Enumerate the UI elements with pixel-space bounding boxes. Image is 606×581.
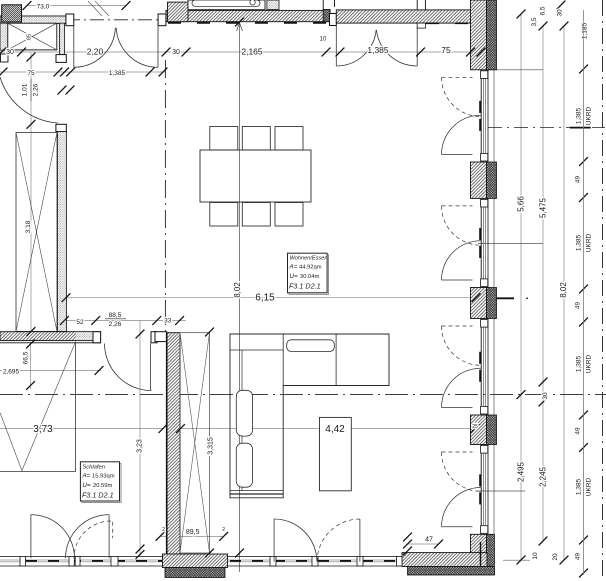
svg-text:6,5: 6,5 [540,6,547,15]
svg-text:2,495: 2,495 [517,461,526,482]
svg-text:UKRD: UKRD [586,233,593,252]
svg-text:73,0: 73,0 [37,4,50,11]
svg-text:30: 30 [542,392,549,400]
svg-text:1,385: 1,385 [576,234,583,251]
svg-text:2,26: 2,26 [109,321,122,328]
svg-text:49: 49 [575,302,582,310]
svg-text:47: 47 [425,537,433,544]
svg-text:30: 30 [6,49,14,56]
svg-text:85: 85 [27,34,33,40]
svg-text:44.92qm: 44.92qm [299,265,322,271]
svg-text:6,15: 6,15 [255,293,275,304]
svg-text:Wohnen/Essen: Wohnen/Essen [290,256,328,262]
svg-text:30: 30 [172,49,180,56]
svg-text:49: 49 [575,176,582,184]
svg-text:3,315: 3,315 [207,437,214,455]
svg-text:A=: A= [289,264,298,271]
svg-text:49: 49 [575,553,582,561]
svg-text:3,5: 3,5 [531,17,538,26]
svg-text:75: 75 [27,70,35,77]
svg-text:52: 52 [76,319,84,326]
svg-text:88,5: 88,5 [109,312,122,319]
svg-text:1,385: 1,385 [576,355,583,372]
svg-text:33: 33 [164,318,172,325]
svg-text:1,185: 1,185 [582,22,589,39]
svg-text:8,02: 8,02 [559,282,568,298]
svg-text:25: 25 [472,424,478,430]
svg-text:5,475: 5,475 [539,197,548,218]
svg-text:1,01: 1,01 [22,83,29,96]
svg-text:2,26: 2,26 [33,83,40,96]
svg-text:Schlafen: Schlafen [82,465,105,471]
svg-text:15.93qm: 15.93qm [92,474,115,480]
svg-text:8,02: 8,02 [233,282,242,298]
svg-text:2,245: 2,245 [539,466,548,487]
svg-text:2,165: 2,165 [241,47,263,57]
svg-text:1,385: 1,385 [576,107,583,124]
svg-text:U=: U= [82,482,90,489]
svg-text:66,5: 66,5 [23,351,30,364]
svg-text:2: 2 [162,527,165,533]
svg-text:1,385: 1,385 [576,478,583,495]
svg-text:3,18: 3,18 [25,220,32,233]
svg-text:89,5: 89,5 [186,529,200,536]
svg-text:1,385: 1,385 [367,45,389,55]
svg-text:A=: A= [81,473,90,480]
svg-text:2: 2 [222,527,225,533]
svg-text:30: 30 [557,9,564,17]
svg-text:30.04m: 30.04m [300,274,320,280]
svg-text:20: 20 [552,553,559,561]
svg-text:3,23: 3,23 [137,439,144,453]
svg-text:75: 75 [441,45,451,55]
svg-text:49: 49 [575,427,582,435]
svg-text:2,20: 2,20 [87,47,104,57]
svg-text:10: 10 [532,552,539,560]
svg-text:UKRD: UKRD [586,354,593,373]
svg-text:3,73: 3,73 [33,424,53,435]
svg-text:F3.1 D2.1: F3.1 D2.1 [289,282,321,291]
svg-text:F3.1 D2.1: F3.1 D2.1 [82,491,114,500]
svg-text:10: 10 [320,37,327,43]
svg-text:UKRD: UKRD [586,106,593,125]
svg-text:5,66: 5,66 [517,196,526,212]
svg-text:2,695: 2,695 [3,369,20,376]
svg-text:U=: U= [290,273,298,280]
svg-text:20.59m: 20.59m [93,483,113,489]
svg-text:1,385: 1,385 [109,70,126,77]
svg-text:4,42: 4,42 [325,424,345,435]
svg-text:UKRD: UKRD [586,477,593,496]
